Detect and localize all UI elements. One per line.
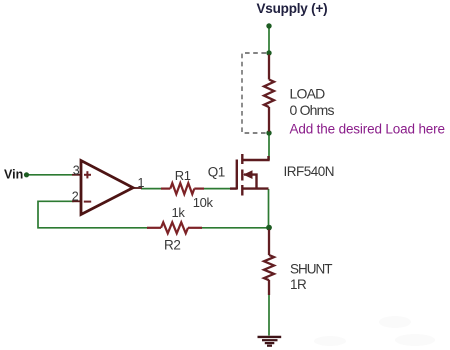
svg-text:R1: R1 [175,168,191,183]
svg-text:SHUNT: SHUNT [290,261,332,276]
svg-text:3: 3 [73,163,80,177]
svg-text:LOAD: LOAD [290,85,326,101]
svg-text:10k: 10k [193,195,214,210]
svg-text:Vsupply (+): Vsupply (+) [257,1,328,16]
svg-text:IRF540N: IRF540N [284,164,335,179]
svg-text:0 Ohms: 0 Ohms [290,102,335,118]
svg-text:1: 1 [138,176,145,190]
svg-text:1k: 1k [172,205,186,220]
svg-text:Add the desired Load here: Add the desired Load here [290,122,445,137]
svg-text:2: 2 [72,190,79,204]
svg-text:1R: 1R [290,277,307,292]
svg-text:R2: R2 [164,238,180,253]
svg-text:Vin: Vin [4,167,23,181]
svg-text:Q1: Q1 [208,164,225,179]
